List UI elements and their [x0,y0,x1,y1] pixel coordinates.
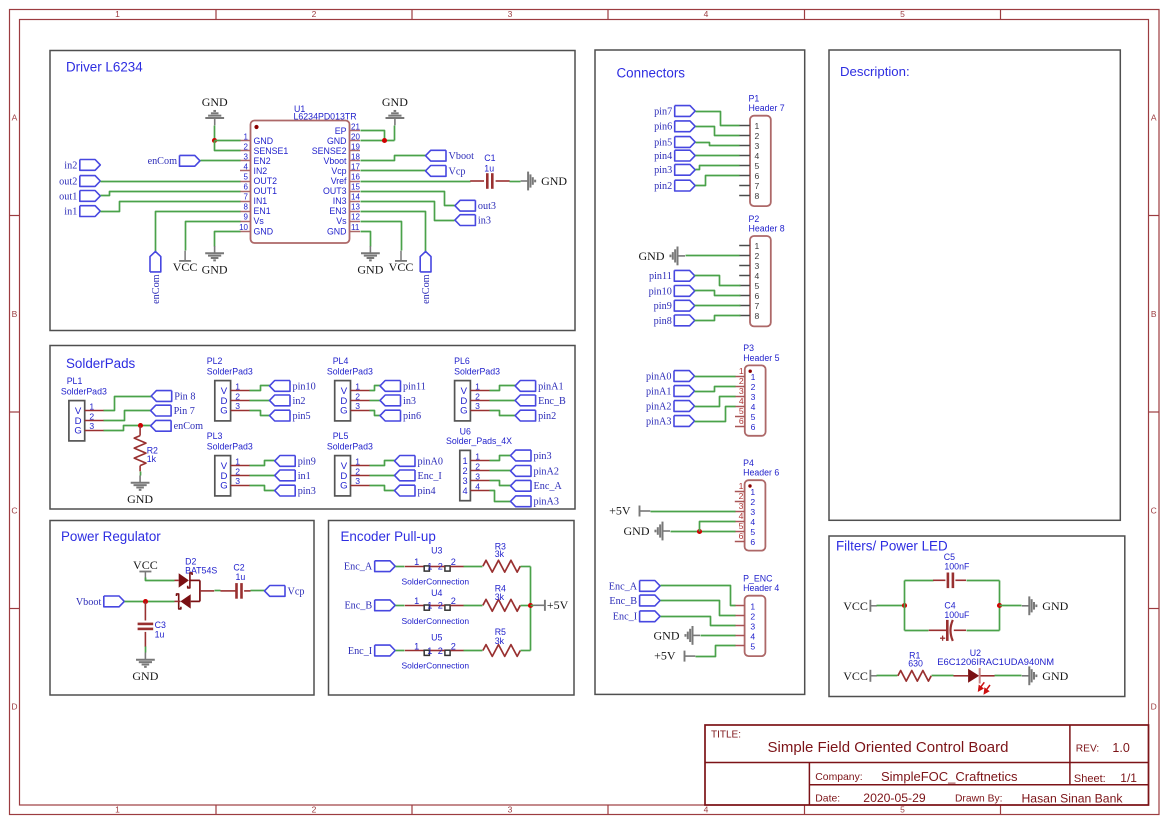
wire Pin 8 [104,397,152,411]
svg-text:3: 3 [462,476,467,486]
label pin2 [654,180,695,192]
svg-text:1: 1 [462,456,467,466]
wire +5V [696,646,736,657]
svg-text:3: 3 [475,472,480,482]
svg-text:Vs: Vs [336,216,347,226]
svg-text:1: 1 [235,457,240,467]
section box Encoder Pull-up [329,521,575,696]
capacitor C1 [470,153,510,189]
svg-text:pinA3: pinA3 [646,416,671,427]
svg-text:1u: 1u [155,630,165,640]
svg-text:SolderPad3: SolderPad3 [327,441,373,451]
svg-text:GND: GND [624,524,650,538]
svg-text:P_ENC: P_ENC [743,574,773,584]
wire in2 [250,400,270,402]
svg-text:5: 5 [900,805,905,815]
junction [697,529,702,534]
wire pinA0 [695,376,736,378]
svg-text:7: 7 [244,193,249,202]
svg-text:GND: GND [132,669,158,683]
label Pin 7 [151,405,195,417]
svg-text:2: 2 [235,391,240,401]
power +5V [654,649,695,663]
label pin10 [270,381,316,393]
svg-text:5: 5 [739,406,744,416]
wire +5V rail [530,567,532,651]
svg-text:pin7: pin7 [654,106,672,117]
connector P3 Header 5 [735,343,780,436]
wire left rail [904,581,906,631]
wire [1000,605,1022,607]
wire pinA1 [490,386,516,391]
label in3 [455,215,491,227]
svg-text:3: 3 [89,421,94,431]
capacitor C3 1u [138,601,166,646]
svg-text:IN2: IN2 [254,166,268,176]
svg-text:1: 1 [750,602,755,612]
section box Driver L6234 [50,51,575,331]
svg-text:Sheet:: Sheet: [1074,773,1106,785]
svg-text:1: 1 [475,382,480,392]
svg-text:+5V: +5V [654,649,676,663]
svg-text:+5V: +5V [609,504,631,518]
svg-text:PL4: PL4 [333,356,349,366]
svg-text:C: C [1151,505,1157,515]
svg-text:pin2: pin2 [654,181,672,192]
capacitor C2 1u [221,563,251,599]
svg-text:pin6: pin6 [403,411,421,422]
wire [251,590,265,592]
svg-text:Vboot: Vboot [76,597,102,608]
label Enc_I [613,611,660,623]
svg-text:GND: GND [202,95,228,109]
svg-text:C3: C3 [155,620,166,630]
wire [521,605,531,607]
label in3 [380,395,416,407]
section box Power Regulator [50,521,314,696]
svg-text:VCC: VCC [843,599,868,613]
svg-text:P3: P3 [743,343,754,353]
wire pinA2 [490,470,511,472]
label in2 [270,395,306,407]
svg-text:in2: in2 [64,160,77,171]
svg-text:G: G [340,406,347,417]
svg-text:in2: in2 [293,396,306,407]
wire pinA0 [370,461,395,466]
label out2 [59,176,100,188]
wire pin11 [695,276,741,286]
LED U2 E6C1206IRAC1UDA940NM [937,648,1054,694]
connector PL6 SolderPad3 [454,356,500,421]
svg-text:GND: GND [202,262,228,276]
ground [639,247,686,266]
svg-text:3: 3 [750,622,755,632]
svg-text:6: 6 [244,183,249,192]
svg-text:8: 8 [755,191,760,201]
label in1 [64,206,100,218]
svg-text:G: G [460,406,467,417]
label Vcp [426,166,466,178]
svg-text:PL5: PL5 [333,431,349,441]
wire [140,472,142,476]
wire right rail [999,581,1001,631]
label Enc_B [609,595,660,607]
svg-text:Drawn By:: Drawn By: [955,793,1003,804]
wire Enc_B [661,601,736,616]
wire pinA1 [695,387,736,392]
wire Enc_A [661,586,736,606]
wire pin9 [250,461,275,466]
svg-text:C1: C1 [484,153,495,163]
connector PL4 SolderPad3 [327,356,373,421]
svg-text:C: C [11,505,17,515]
svg-text:Header 5: Header 5 [743,353,779,363]
section box Filters/Power LED [829,536,1125,697]
wire GND [686,255,740,257]
svg-text:Header 7: Header 7 [749,103,785,113]
svg-text:19: 19 [351,142,360,151]
svg-text:Pin 8: Pin 8 [174,391,195,402]
title block [705,725,1149,806]
label pin3 [654,164,695,176]
jumper U5 SolderConnection [402,633,470,671]
svg-text:3k: 3k [495,636,505,646]
svg-text:G: G [74,426,81,437]
wire [361,140,395,142]
label pin6 [654,121,695,133]
svg-text:2: 2 [462,466,467,476]
svg-text:EN3: EN3 [329,206,346,216]
label in1 [275,470,311,482]
svg-text:Driver L6234: Driver L6234 [66,60,143,75]
junction [382,138,387,143]
svg-text:1u: 1u [236,572,246,582]
wire [510,181,521,183]
svg-text:Enc_A: Enc_A [609,581,638,592]
label pinA2 [511,466,559,478]
svg-text:VCC: VCC [133,558,158,572]
svg-text:2: 2 [755,251,760,261]
svg-text:100nF: 100nF [944,562,970,572]
svg-text:20: 20 [351,132,360,141]
svg-text:C2: C2 [233,563,244,573]
svg-text:Solder_Pads_4X: Solder_Pads_4X [446,436,512,446]
svg-text:pin9: pin9 [298,456,316,467]
svg-text:Vboot: Vboot [449,151,475,162]
capacitor C4 100uF [929,600,970,641]
svg-text:GND: GND [127,492,153,506]
svg-text:2: 2 [355,391,360,401]
ground [521,172,568,191]
svg-text:SolderPads: SolderPads [66,356,136,371]
wire Vboot [361,156,426,161]
svg-text:in1: in1 [64,207,77,218]
svg-text:6: 6 [739,531,744,541]
power VCC [843,599,877,613]
svg-text:3: 3 [508,805,513,815]
svg-text:1: 1 [427,601,432,611]
svg-text:EP: EP [335,126,347,136]
svg-text:enCom: enCom [421,274,432,304]
label pin4 [395,485,436,497]
label pin5 [270,410,311,422]
ground [654,626,701,645]
svg-text:2: 2 [750,497,755,507]
svg-text:VCC: VCC [389,260,414,274]
wire pin8 EN1 [156,212,241,252]
label pin9 [654,300,695,312]
label out1 [59,191,100,203]
svg-text:VCC: VCC [173,260,198,274]
svg-text:18: 18 [351,152,360,161]
wire [877,605,905,607]
svg-text:16: 16 [351,173,360,182]
wire pin2 [696,176,740,186]
wire pin5 [250,411,270,416]
svg-text:pinA0: pinA0 [418,456,443,467]
wire [125,601,175,603]
section box Description [829,50,1120,520]
ground [624,522,671,541]
svg-text:2: 2 [355,466,360,476]
junction [528,603,533,608]
wire [394,126,396,141]
svg-text:pin3: pin3 [654,165,672,176]
power VCC [389,251,414,275]
wire [905,580,934,582]
svg-text:+5V: +5V [547,598,569,612]
ground [1022,596,1069,615]
svg-text:2: 2 [451,641,456,651]
svg-text:2020-05-29: 2020-05-29 [863,791,926,805]
connector P1 Header 7 [739,94,785,207]
svg-text:pin10: pin10 [293,381,316,392]
label pin8 [654,315,695,327]
svg-text:PL2: PL2 [207,356,223,366]
svg-text:1: 1 [475,452,480,462]
svg-text:pinA1: pinA1 [646,386,671,397]
svg-text:SimpleFOC_Craftnetics: SimpleFOC_Craftnetics [881,769,1018,784]
svg-text:3: 3 [508,9,513,19]
svg-text:1: 1 [414,641,419,651]
svg-text:pin9: pin9 [654,301,672,312]
svg-text:2: 2 [244,142,249,151]
svg-text:4: 4 [755,151,760,161]
resistor R5 3k [483,627,520,656]
svg-text:OUT3: OUT3 [323,186,347,196]
label Enc_B [515,395,566,407]
junction [997,603,1002,608]
label in2 [64,160,100,172]
label Enc_A [609,581,660,593]
wire [214,126,216,141]
svg-text:B: B [1151,309,1157,319]
svg-text:SENSE2: SENSE2 [312,146,347,156]
svg-text:pin3: pin3 [534,451,552,462]
svg-text:3: 3 [755,261,760,271]
wire [396,605,405,607]
svg-text:Enc_B: Enc_B [538,396,566,407]
svg-text:pin11: pin11 [403,381,426,392]
svg-text:SolderConnection: SolderConnection [402,577,470,587]
svg-text:1: 1 [355,382,360,392]
wire [464,650,483,652]
svg-text:in3: in3 [478,216,491,227]
wire out3 [361,192,455,206]
svg-text:pin6: pin6 [654,122,672,133]
wire enCom [104,426,151,431]
svg-text:Filters/ Power LED: Filters/ Power LED [836,539,948,554]
wire [905,630,929,632]
wire [101,181,241,183]
label enCom [420,251,432,303]
section box Connectors [595,50,805,694]
svg-text:5: 5 [755,161,760,171]
svg-text:2: 2 [438,601,443,611]
svg-text:4: 4 [739,511,744,521]
svg-text:enCom: enCom [151,274,162,304]
wire pin10 [250,386,270,391]
svg-text:5: 5 [751,412,756,422]
svg-text:Hasan Sinan Bank: Hasan Sinan Bank [1022,792,1124,806]
IC U1 L6234PD013TR [239,104,360,243]
wire [995,675,1022,677]
svg-text:1: 1 [244,132,249,141]
svg-text:1u: 1u [484,163,494,173]
svg-text:SolderPad3: SolderPad3 [327,366,373,376]
svg-text:SolderPad3: SolderPad3 [454,366,500,376]
wire pin12 Vs [361,222,402,251]
svg-text:pin5: pin5 [654,137,672,148]
wire +5V [651,511,736,513]
svg-text:4: 4 [739,396,744,406]
svg-text:GND: GND [254,226,274,236]
label Enc_I [348,645,395,657]
svg-text:6: 6 [755,291,760,301]
label pin10 [649,286,695,298]
svg-text:U5: U5 [431,633,442,643]
label out3 [455,200,496,212]
svg-text:P4: P4 [743,458,754,468]
svg-text:D: D [11,702,17,712]
wire [967,580,1000,582]
svg-text:3: 3 [475,401,480,411]
svg-text:in3: in3 [403,396,416,407]
wire pin13 EN3 [361,212,426,252]
svg-text:SolderPad3: SolderPad3 [61,386,107,396]
wire [932,675,954,677]
label enCom [150,251,162,303]
svg-text:GND: GND [327,136,347,146]
svg-text:4: 4 [751,402,756,412]
label Enc_B [344,600,395,612]
svg-text:B: B [12,309,18,319]
svg-text:Enc_B: Enc_B [344,601,372,612]
label Vcp [265,586,305,598]
wire pinA3 [695,407,736,422]
wire Vref [361,181,471,183]
capacitor C5 100nF [933,552,970,588]
svg-text:GND: GND [1042,669,1068,683]
svg-text:2: 2 [751,382,756,392]
svg-text:Description:: Description: [840,64,910,79]
label pin4 [654,150,695,162]
svg-text:Connectors: Connectors [617,66,686,81]
svg-text:1.0: 1.0 [1112,741,1129,755]
label Vboot [426,150,475,162]
svg-text:GND: GND [357,262,383,276]
svg-text:SENSE1: SENSE1 [254,146,289,156]
wire pinA3 [490,491,511,502]
svg-text:enCom: enCom [174,421,204,432]
svg-text:SolderConnection: SolderConnection [402,616,470,626]
section box SolderPads [50,346,575,510]
svg-text:5: 5 [755,281,760,291]
svg-text:2: 2 [438,646,443,656]
wire [464,566,483,568]
wire pin6 [696,127,740,136]
label enCom [151,420,204,432]
svg-text:pin3: pin3 [298,486,316,497]
ground [127,476,153,506]
svg-text:Enc_I: Enc_I [348,646,373,657]
svg-text:Enc_I: Enc_I [613,612,638,623]
jumper U3 SolderConnection [402,545,470,586]
svg-text:PL6: PL6 [454,356,470,366]
svg-text:1: 1 [755,121,760,131]
wire pin11 [370,386,381,391]
svg-text:Date:: Date: [815,793,840,804]
svg-text:out2: out2 [59,176,77,187]
wire pin3 [696,166,740,170]
svg-text:Enc_B: Enc_B [609,596,637,607]
connector P2 Header 8 [739,214,785,327]
svg-text:A: A [1151,113,1157,123]
wire GND [701,635,736,637]
svg-text:OUT1: OUT1 [254,186,278,196]
svg-text:pinA2: pinA2 [534,466,559,477]
svg-text:EN1: EN1 [254,206,271,216]
svg-text:4: 4 [462,486,467,496]
svg-text:1: 1 [755,241,760,251]
power VCC [173,251,198,275]
svg-text:3k: 3k [495,549,505,559]
ground [132,653,158,683]
wire in1 [250,475,275,477]
connector U6 Solder_Pads_4X [446,427,512,501]
svg-text:8: 8 [244,203,249,212]
svg-text:pinA2: pinA2 [646,401,671,412]
label pin2 [515,410,556,422]
wire [396,566,405,568]
wire Enc_I [370,475,395,477]
svg-text:4: 4 [704,9,709,19]
svg-text:REV:: REV: [1076,744,1099,755]
svg-text:GND: GND [382,95,408,109]
wire in3 [361,202,455,221]
svg-text:EN2: EN2 [254,156,271,166]
junction [143,599,148,604]
svg-text:1: 1 [115,9,120,19]
svg-text:out1: out1 [59,191,77,202]
svg-text:Enc_A: Enc_A [344,562,373,573]
wire Enc_I [661,617,736,626]
svg-text:6: 6 [751,422,756,432]
wire [101,192,241,196]
svg-text:G: G [340,481,347,492]
svg-text:OUT2: OUT2 [254,176,278,186]
svg-text:5: 5 [750,527,755,537]
